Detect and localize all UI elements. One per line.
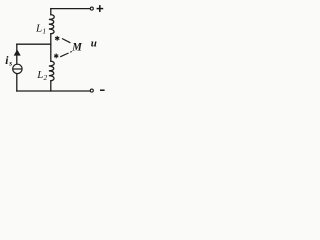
leader line M to upper asterisk (62, 39, 70, 43)
current source bar (13, 68, 22, 70)
wire top (node top to + terminal) (51, 8, 91, 10)
wire middle node horizontal (17, 43, 51, 45)
current direction arrowhead (14, 50, 20, 55)
inductor L1 (49, 15, 54, 34)
polarity asterisk for L2 (54, 54, 58, 59)
inductor L2 (49, 61, 54, 81)
wire middle branch upper (50, 9, 52, 15)
terminal circle top (90, 7, 93, 10)
leader line M to lower asterisk (60, 53, 68, 57)
leader dash lower (70, 51, 72, 54)
wire middle branch center (50, 34, 52, 61)
svg-text:2: 2 (44, 73, 48, 82)
wire left branch upper (16, 44, 18, 64)
svg-text:s: s (8, 59, 12, 68)
plus sign (97, 5, 104, 12)
current source i_s circle (13, 64, 22, 73)
polarity asterisk for L1 (55, 36, 59, 41)
minus sign (100, 89, 105, 91)
wire left branch lower (16, 74, 18, 91)
terminal circle bottom (90, 89, 93, 92)
svg-text:u: u (91, 38, 97, 50)
svg-text:M: M (71, 40, 82, 54)
svg-text:L: L (35, 22, 42, 34)
svg-text:L: L (36, 69, 43, 81)
svg-text:1: 1 (42, 26, 46, 35)
wire middle branch lower (50, 81, 52, 91)
wire bottom (left to - terminal) (17, 90, 91, 92)
